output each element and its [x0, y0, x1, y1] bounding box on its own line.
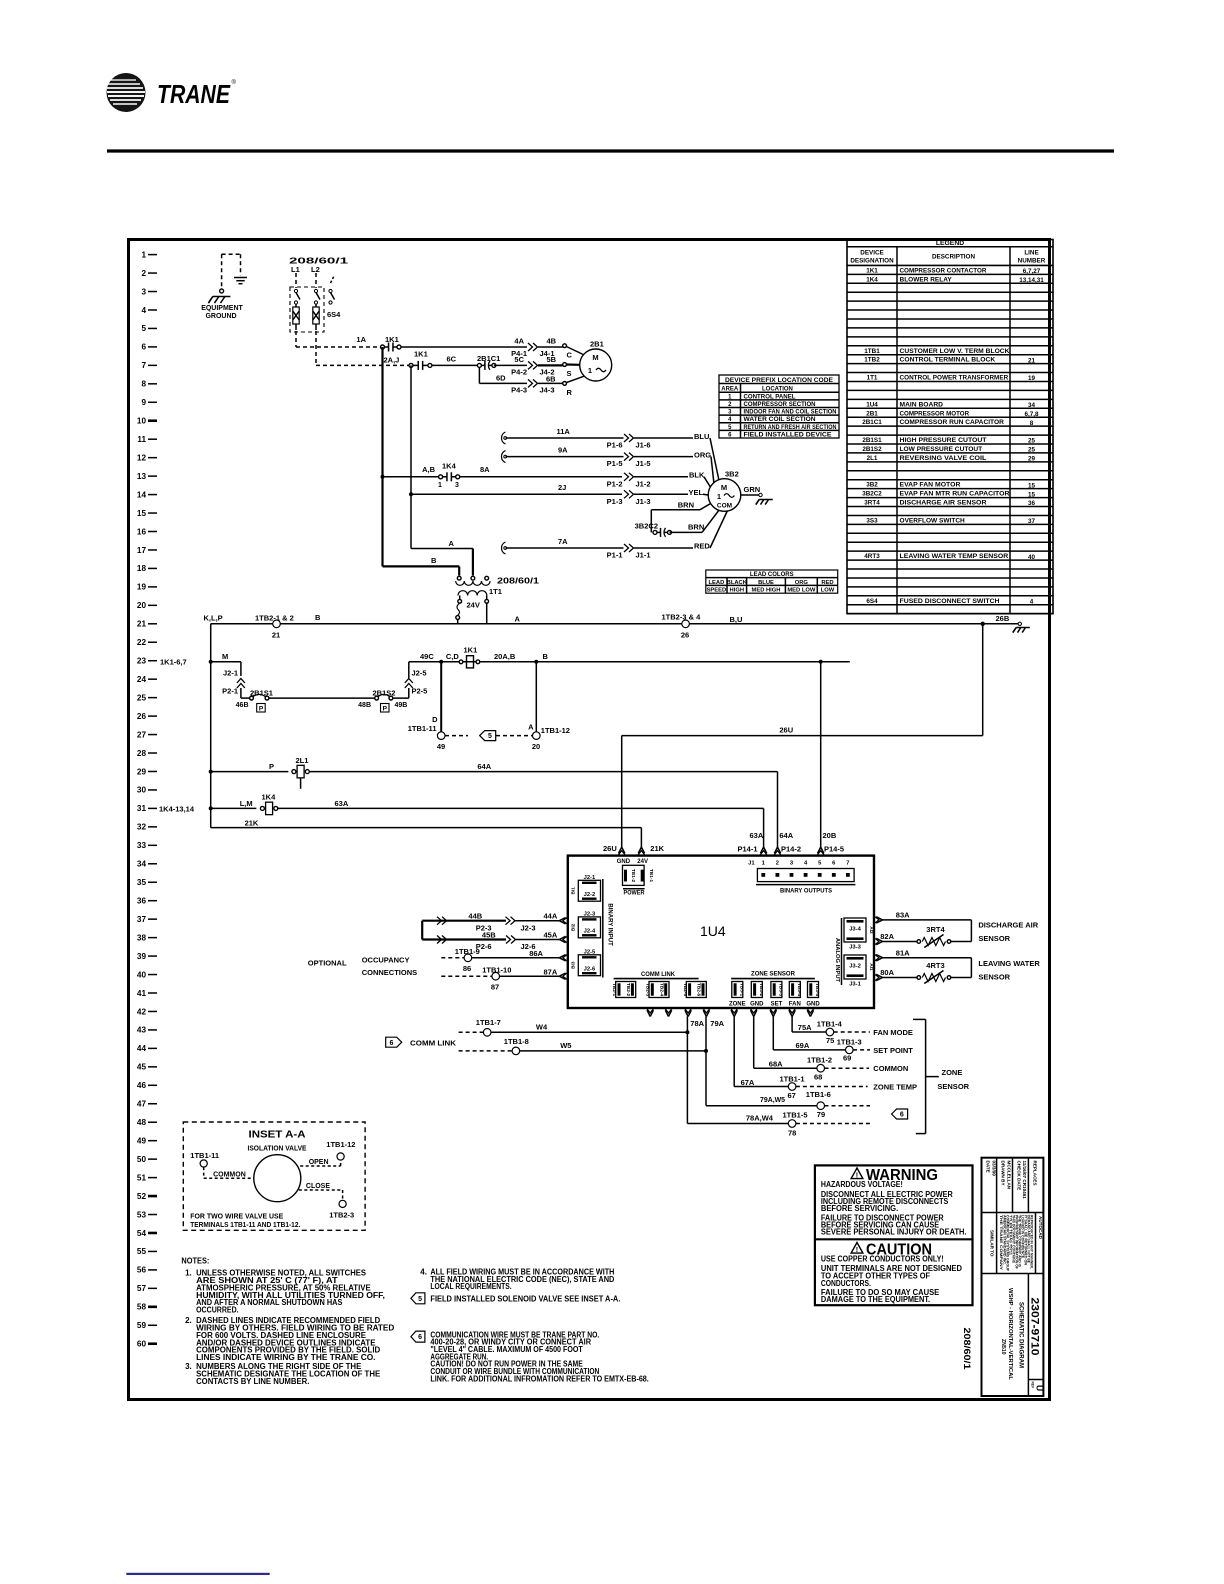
svg-text:HAZARDOUS VOLTAGE!: HAZARDOUS VOLTAGE!	[821, 1180, 903, 1189]
svg-text:2A,J: 2A,J	[384, 356, 400, 365]
svg-text:EVAP FAN MTR RUN CAPACITOR: EVAP FAN MTR RUN CAPACITOR	[900, 491, 1010, 498]
svg-text:J1-1: J1-1	[636, 551, 651, 560]
svg-text:DESIGNATION: DESIGNATION	[850, 257, 894, 264]
svg-text:ZN510: ZN510	[1000, 1339, 1006, 1355]
svg-text:BI2: BI2	[571, 923, 577, 931]
svg-text:J1-6: J1-6	[636, 441, 651, 450]
svg-text:1K1-6,7: 1K1-6,7	[160, 658, 187, 667]
svg-text:78A: 78A	[690, 1019, 704, 1028]
svg-text:M: M	[592, 353, 598, 362]
svg-text:MED HIGH: MED HIGH	[752, 588, 781, 594]
svg-text:68: 68	[814, 1073, 822, 1082]
svg-text:19: 19	[1028, 375, 1036, 382]
svg-text:TB2-5: TB2-5	[682, 983, 688, 997]
svg-text:26B: 26B	[996, 614, 1010, 623]
svg-text:J1-3: J1-3	[636, 497, 651, 506]
svg-text:59: 59	[137, 1321, 147, 1330]
svg-text:INSET A-A: INSET A-A	[249, 1130, 306, 1141]
svg-text:CONNECTIONS: CONNECTIONS	[362, 968, 417, 977]
svg-text:AUTOCAD: AUTOCAD	[1038, 1216, 1043, 1240]
svg-text:49B: 49B	[395, 702, 408, 709]
svg-text:6,7,8: 6,7,8	[1024, 411, 1039, 418]
svg-text:53: 53	[137, 1210, 147, 1219]
svg-text:LOW: LOW	[821, 588, 835, 594]
svg-text:21: 21	[272, 631, 280, 640]
svg-text:49: 49	[137, 1136, 147, 1145]
svg-text:ZONE SENSOR: ZONE SENSOR	[751, 972, 796, 978]
svg-text:2L1: 2L1	[296, 756, 309, 765]
svg-text:25: 25	[1028, 447, 1036, 454]
svg-text:3: 3	[455, 482, 459, 489]
svg-text:LOCAL REQUIREMENTS.: LOCAL REQUIREMENTS.	[430, 1282, 511, 1291]
svg-text:55: 55	[137, 1247, 147, 1256]
svg-text:J2-5: J2-5	[412, 669, 427, 678]
svg-text:BLACK: BLACK	[727, 580, 748, 586]
svg-text:CUSTOMER LOW V. TERM BLOCK: CUSTOMER LOW V. TERM BLOCK	[900, 348, 1010, 355]
svg-text:P: P	[269, 762, 274, 771]
svg-text:3RT4: 3RT4	[864, 500, 880, 507]
svg-text:OPEN: OPEN	[309, 1159, 329, 1166]
svg-text:LINE: LINE	[1024, 250, 1038, 257]
svg-text:1U4: 1U4	[866, 401, 878, 408]
svg-text:42: 42	[137, 1007, 147, 1016]
svg-text:USE COPPER CONDUCTORS ONLY!: USE COPPER CONDUCTORS ONLY!	[821, 1255, 944, 1264]
svg-text:83A: 83A	[896, 911, 910, 920]
svg-text:W4: W4	[536, 1023, 548, 1032]
svg-text:DESCRIPTION: DESCRIPTION	[932, 254, 975, 261]
svg-text:1K4: 1K4	[866, 276, 878, 283]
svg-text:79A: 79A	[710, 1019, 724, 1028]
svg-text:SET: SET	[771, 1001, 783, 1007]
svg-text:46: 46	[137, 1081, 147, 1090]
svg-text:ZONE: ZONE	[942, 1068, 963, 1077]
svg-text:29: 29	[1028, 456, 1036, 463]
svg-text:1TB1-10: 1TB1-10	[482, 966, 511, 975]
svg-text:M: M	[721, 483, 727, 492]
svg-text:3RT4: 3RT4	[926, 925, 945, 934]
svg-text:HIGH PRESSURE CUTOUT: HIGH PRESSURE CUTOUT	[900, 437, 987, 444]
svg-text:48B: 48B	[358, 702, 371, 709]
svg-text:J1-5: J1-5	[636, 459, 651, 468]
svg-text:GND: GND	[617, 859, 631, 865]
svg-text:DAMAGE TO THE EQUIPMENT.: DAMAGE TO THE EQUIPMENT.	[821, 1295, 930, 1304]
svg-text:6,7,27: 6,7,27	[1023, 268, 1041, 275]
svg-text:26U: 26U	[779, 726, 793, 735]
svg-text:J1-2: J1-2	[636, 479, 651, 488]
svg-text:REV: REV	[1031, 1382, 1035, 1389]
svg-text:SENSOR: SENSOR	[937, 1082, 969, 1091]
svg-text:1K4: 1K4	[442, 462, 457, 471]
svg-text:J2-4: J2-4	[584, 928, 596, 934]
svg-text:4RT3: 4RT3	[864, 553, 880, 560]
svg-text:J3-3: J3-3	[849, 945, 861, 951]
svg-text:MCCLELLAN: MCCLELLAN	[1006, 1161, 1011, 1190]
svg-text:1TB1-11: 1TB1-11	[190, 1151, 219, 1160]
svg-text:3B2C2: 3B2C2	[635, 522, 658, 531]
svg-text:82A: 82A	[880, 932, 894, 941]
svg-text:20A,B: 20A,B	[494, 652, 516, 661]
svg-text:BLU: BLU	[694, 432, 709, 441]
svg-text:J3-1: J3-1	[849, 982, 861, 988]
svg-text:SCHEMATIC DIAGRAM: SCHEMATIC DIAGRAM	[1018, 1302, 1025, 1368]
svg-text:®: ®	[232, 79, 237, 86]
svg-text:ZONE: ZONE	[729, 1001, 746, 1007]
svg-text:36: 36	[1028, 500, 1036, 507]
svg-text:LEAD: LEAD	[709, 580, 725, 586]
svg-text:1TB1-11: 1TB1-11	[408, 724, 437, 733]
svg-text:1U4: 1U4	[700, 923, 726, 939]
svg-text:5: 5	[141, 324, 146, 333]
svg-text:LOW PRESSURE CUTOUT: LOW PRESSURE CUTOUT	[900, 446, 983, 453]
svg-text:TB1-1: TB1-1	[648, 869, 654, 883]
svg-text:EQUIPMENT: EQUIPMENT	[201, 305, 243, 312]
svg-text:TB2-6: TB2-6	[696, 983, 702, 997]
svg-text:03/3/99: 03/3/99	[991, 1161, 996, 1177]
svg-text:4.: 4.	[420, 1267, 427, 1276]
svg-text:ANALOG INPUT: ANALOG INPUT	[834, 938, 840, 983]
svg-text:33: 33	[137, 841, 147, 850]
svg-text:EVAP FAN MOTOR: EVAP FAN MOTOR	[900, 482, 961, 489]
svg-text:49: 49	[437, 742, 445, 751]
svg-text:87A: 87A	[544, 967, 558, 976]
svg-text:11/16/07 CR10461: 11/16/07 CR10461	[1022, 1161, 1027, 1200]
svg-text:24V: 24V	[467, 601, 480, 610]
svg-text:TB3-5: TB3-5	[814, 983, 820, 997]
svg-text:RED: RED	[821, 580, 833, 586]
svg-text:DRAWN BY: DRAWN BY	[1001, 1161, 1006, 1186]
svg-text:5: 5	[488, 733, 492, 740]
svg-text:48: 48	[137, 1118, 147, 1127]
svg-text:DEVICE: DEVICE	[860, 250, 883, 257]
svg-text:1: 1	[588, 366, 592, 375]
svg-text:2B1: 2B1	[866, 410, 878, 417]
svg-text:P4-2: P4-2	[511, 368, 527, 377]
svg-text:M: M	[222, 652, 228, 661]
svg-text:COMM LINK: COMM LINK	[410, 1039, 457, 1048]
svg-text:COMMON: COMMON	[873, 1064, 908, 1073]
svg-text:REPLACES: REPLACES	[1032, 1161, 1037, 1186]
svg-text:OCCURRED.: OCCURRED.	[196, 1305, 239, 1314]
svg-text:2J: 2J	[558, 483, 566, 492]
svg-text:26U: 26U	[603, 844, 617, 853]
svg-text:79: 79	[817, 1110, 825, 1119]
svg-text:12: 12	[137, 453, 147, 462]
svg-text:ISOLATION VALVE: ISOLATION VALVE	[248, 1146, 307, 1153]
svg-text:78A,W4: 78A,W4	[746, 1114, 774, 1123]
svg-text:18: 18	[137, 564, 147, 573]
svg-text:6B: 6B	[546, 375, 556, 384]
svg-text:FAN: FAN	[789, 1001, 801, 1007]
svg-text:52: 52	[137, 1192, 147, 1201]
svg-text:1K4-13,14: 1K4-13,14	[159, 805, 195, 814]
svg-text:P14-2: P14-2	[781, 845, 801, 854]
svg-text:GND: GND	[750, 1001, 764, 1007]
svg-text:A: A	[515, 615, 521, 624]
svg-text:BLK: BLK	[689, 470, 705, 479]
svg-text:75: 75	[826, 1036, 834, 1045]
svg-text:S: S	[567, 369, 572, 378]
svg-text:1TB1-3: 1TB1-3	[837, 1038, 862, 1047]
svg-text:D: D	[432, 715, 438, 724]
svg-text:TB3-4: TB3-4	[796, 983, 802, 997]
svg-text:6: 6	[900, 1112, 904, 1119]
svg-text:47: 47	[137, 1100, 147, 1109]
svg-text:26: 26	[137, 712, 147, 721]
svg-text:23: 23	[137, 657, 147, 666]
svg-text:BINARY OUTPUTS: BINARY OUTPUTS	[780, 889, 832, 895]
svg-text:DATE: DATE	[986, 1161, 991, 1173]
svg-text:26: 26	[681, 631, 689, 640]
svg-text:1TB1-6: 1TB1-6	[806, 1090, 831, 1099]
svg-text:CONTROL TERMINAL BLOCK: CONTROL TERMINAL BLOCK	[900, 357, 996, 364]
svg-text:2.: 2.	[185, 1316, 192, 1325]
svg-text:BEFORE SERVICING.: BEFORE SERVICING.	[821, 1204, 898, 1213]
svg-text:P1-6: P1-6	[607, 441, 623, 450]
svg-text:CONTACTS BY LINE NUMBER.: CONTACTS BY LINE NUMBER.	[196, 1377, 309, 1386]
svg-text:L2: L2	[311, 265, 320, 274]
svg-text:AREA: AREA	[721, 387, 739, 393]
svg-text:24V: 24V	[637, 859, 648, 865]
svg-text:2: 2	[776, 861, 779, 867]
svg-text:FAN MODE: FAN MODE	[873, 1028, 913, 1037]
svg-text:45B: 45B	[482, 930, 496, 939]
svg-text:A,B: A,B	[422, 465, 436, 474]
svg-text:COMMON: COMMON	[213, 1171, 246, 1178]
svg-text:69A: 69A	[796, 1041, 810, 1050]
svg-text:LOCATION: LOCATION	[762, 387, 793, 393]
svg-text:CONDUCTORS.: CONDUCTORS.	[821, 1279, 871, 1288]
svg-text:21: 21	[137, 620, 147, 629]
svg-text:4: 4	[1030, 598, 1034, 605]
svg-text:SEVERE PERSONAL INJURY OR DEAT: SEVERE PERSONAL INJURY OR DEATH.	[821, 1228, 967, 1237]
svg-text:1TB1-5: 1TB1-5	[783, 1111, 808, 1120]
svg-text:69: 69	[843, 1054, 851, 1063]
svg-text:CONTROL POWER TRANSFORMER: CONTROL POWER TRANSFORMER	[900, 375, 1009, 382]
svg-text:44B: 44B	[468, 912, 482, 921]
svg-text:L1: L1	[291, 265, 300, 274]
svg-text:25: 25	[1028, 438, 1036, 445]
svg-text:10: 10	[137, 417, 147, 426]
svg-text:OCCUPANCY: OCCUPANCY	[362, 956, 410, 965]
svg-text:20: 20	[137, 601, 147, 610]
svg-text:54: 54	[137, 1229, 147, 1238]
svg-text:HIGH: HIGH	[730, 588, 745, 594]
svg-text:63A: 63A	[750, 831, 764, 840]
svg-text:P: P	[383, 706, 388, 713]
svg-text:25: 25	[137, 693, 147, 702]
svg-text:44A: 44A	[544, 912, 558, 921]
svg-text:BRN: BRN	[678, 501, 694, 510]
svg-text:13: 13	[137, 472, 147, 481]
svg-text:ORG: ORG	[795, 580, 809, 586]
svg-text:A: A	[528, 723, 534, 732]
svg-text:39: 39	[137, 952, 147, 961]
svg-text:J3-4: J3-4	[849, 927, 861, 933]
svg-text:P1-1: P1-1	[607, 551, 623, 560]
svg-text:1TB1-4: 1TB1-4	[817, 1020, 843, 1029]
svg-text:8: 8	[1030, 420, 1034, 427]
svg-text:GND: GND	[806, 1001, 820, 1007]
svg-text:P2-1: P2-1	[222, 687, 238, 696]
svg-text:2B1S1: 2B1S1	[862, 437, 882, 444]
svg-text:LEGEND: LEGEND	[936, 240, 964, 247]
svg-text:J2-6: J2-6	[584, 966, 596, 972]
svg-text:37: 37	[1028, 518, 1036, 525]
svg-text:44: 44	[137, 1044, 147, 1053]
svg-text:1K1: 1K1	[385, 335, 399, 344]
svg-text:BRN: BRN	[688, 523, 704, 532]
svg-text:J2-3: J2-3	[521, 924, 536, 933]
svg-text:BI1: BI1	[571, 887, 577, 895]
svg-text:4RT3: 4RT3	[926, 961, 944, 970]
svg-text:DISCHARGE AIR: DISCHARGE AIR	[978, 921, 1038, 930]
svg-text:80A: 80A	[880, 968, 894, 977]
svg-text:SET POINT: SET POINT	[873, 1046, 913, 1055]
svg-text:6: 6	[390, 1040, 394, 1047]
svg-text:BLUE: BLUE	[758, 580, 774, 586]
svg-text:6: 6	[141, 343, 146, 352]
svg-text:2B1S2: 2B1S2	[862, 446, 882, 453]
svg-text:24: 24	[137, 675, 147, 684]
svg-text:31: 31	[137, 804, 147, 813]
svg-text:2B1C1: 2B1C1	[477, 354, 500, 363]
svg-text:SIMILAR TO: SIMILAR TO	[990, 1230, 995, 1257]
svg-text:C,D: C,D	[446, 652, 460, 661]
svg-text:CHECK DATE: CHECK DATE	[1016, 1161, 1021, 1191]
svg-text:17: 17	[137, 546, 147, 555]
svg-text:5C: 5C	[514, 355, 524, 364]
svg-text:3S3: 3S3	[866, 517, 878, 524]
svg-text:L,M: L,M	[240, 799, 253, 808]
svg-text:1TB2-3: 1TB2-3	[329, 1211, 354, 1220]
svg-text:28: 28	[137, 749, 147, 758]
svg-text:32: 32	[137, 823, 147, 832]
svg-text:2L1: 2L1	[867, 455, 878, 462]
svg-text:20B: 20B	[823, 831, 837, 840]
svg-text:NUMBER: NUMBER	[1018, 257, 1046, 264]
svg-text:A: A	[449, 539, 455, 548]
svg-text:40: 40	[137, 970, 147, 979]
svg-text:22: 22	[137, 638, 147, 647]
svg-text:6C: 6C	[447, 355, 457, 364]
svg-text:35: 35	[137, 878, 147, 887]
svg-text:LINES INDICATE WIRING BY THE T: LINES INDICATE WIRING BY THE TRANE CO.	[196, 1353, 375, 1362]
svg-text:P1-2: P1-2	[607, 479, 623, 488]
svg-text:3: 3	[141, 287, 146, 296]
svg-text:WSHP - HORIZONTAL-VERTICAL: WSHP - HORIZONTAL-VERTICAL	[1007, 1288, 1013, 1381]
svg-text:COMPRESSOR RUN CAPACITOR: COMPRESSOR RUN CAPACITOR	[900, 419, 1005, 426]
svg-text:W5: W5	[560, 1041, 571, 1050]
svg-text:COMM LINK: COMM LINK	[641, 972, 676, 978]
svg-text:J4-3: J4-3	[540, 386, 555, 395]
svg-text:1K4: 1K4	[262, 793, 277, 802]
svg-text:1K1: 1K1	[866, 267, 878, 274]
svg-text:TB2-4: TB2-4	[658, 983, 664, 997]
svg-text:B: B	[543, 652, 549, 661]
svg-text:FIELD INSTALLED SOLENOID VALVE: FIELD INSTALLED SOLENOID VALVE SEE INSET…	[430, 1294, 620, 1303]
svg-text:68A: 68A	[769, 1060, 783, 1069]
svg-text:34: 34	[1028, 402, 1036, 409]
svg-text:1T1: 1T1	[867, 375, 878, 382]
svg-text:7: 7	[846, 861, 849, 867]
svg-text:208/60/1: 208/60/1	[497, 577, 540, 586]
svg-text:49C: 49C	[420, 652, 434, 661]
svg-text:3B2C2: 3B2C2	[862, 491, 882, 498]
svg-text:6S4: 6S4	[866, 598, 878, 605]
svg-text:COM: COM	[717, 503, 732, 510]
svg-text:87: 87	[491, 983, 499, 992]
svg-text:86A: 86A	[529, 949, 543, 958]
svg-text:4: 4	[141, 306, 146, 315]
svg-text:19: 19	[137, 583, 147, 592]
svg-text:1TB1-9: 1TB1-9	[455, 947, 480, 956]
svg-text:DEVICE PREFIX LOCATION CODE: DEVICE PREFIX LOCATION CODE	[725, 377, 833, 384]
svg-text:36: 36	[137, 897, 147, 906]
svg-text:REVERSING VALVE COIL: REVERSING VALVE COIL	[900, 455, 987, 462]
svg-text:REPRODUCED IN ANY MANNER.: REPRODUCED IN ANY MANNER.	[1030, 1215, 1034, 1269]
svg-text:TB3-1: TB3-1	[738, 983, 744, 997]
svg-text:56: 56	[137, 1266, 147, 1275]
svg-text:GRN: GRN	[744, 485, 761, 494]
svg-text:P2-5: P2-5	[412, 687, 428, 696]
svg-text:51: 51	[137, 1173, 147, 1182]
svg-text:1.: 1.	[185, 1269, 192, 1278]
svg-text:U: U	[1035, 1385, 1045, 1391]
svg-text:FUSED DISCONNECT SWITCH: FUSED DISCONNECT SWITCH	[900, 598, 1001, 605]
svg-text:7A: 7A	[558, 537, 568, 546]
svg-text:8A: 8A	[480, 465, 490, 474]
svg-text:TB2-2: TB2-2	[625, 983, 631, 997]
svg-text:11: 11	[137, 435, 146, 444]
svg-text:LEAVING WATER TEMP SENSOR: LEAVING WATER TEMP SENSOR	[900, 553, 1009, 560]
svg-text:1K1: 1K1	[414, 350, 428, 359]
svg-text:15: 15	[1028, 482, 1036, 489]
svg-text:ZONE TEMP: ZONE TEMP	[873, 1083, 917, 1092]
svg-text:MED LOW: MED LOW	[787, 588, 816, 594]
svg-text:5B: 5B	[547, 355, 557, 364]
svg-text:41: 41	[137, 989, 147, 998]
svg-text:64A: 64A	[779, 831, 793, 840]
svg-text:78: 78	[788, 1129, 796, 1138]
svg-text:86: 86	[463, 964, 471, 973]
svg-text:ORG: ORG	[694, 451, 711, 460]
svg-text:GROUND: GROUND	[205, 313, 236, 320]
svg-text:34: 34	[137, 860, 147, 869]
svg-text:TB2-1: TB2-1	[611, 983, 617, 997]
svg-text:P1-5: P1-5	[607, 459, 623, 468]
svg-text:21: 21	[1028, 357, 1036, 364]
svg-text:29: 29	[137, 767, 147, 776]
svg-text:7: 7	[141, 361, 146, 370]
svg-text:TRANE: TRANE	[157, 79, 231, 109]
svg-text:B: B	[431, 556, 437, 565]
svg-text:BLOWER RELAY: BLOWER RELAY	[900, 276, 953, 283]
svg-text:6D: 6D	[496, 374, 506, 383]
svg-text:11A: 11A	[557, 427, 571, 436]
svg-text:K,L,P: K,L,P	[204, 614, 223, 623]
svg-text:TB3-2: TB3-2	[758, 983, 764, 997]
svg-text:16: 16	[137, 527, 147, 536]
svg-text:75A: 75A	[798, 1023, 812, 1032]
svg-text:208/60/1: 208/60/1	[961, 1328, 972, 1371]
svg-text:2: 2	[141, 269, 146, 278]
svg-text:AI2: AI2	[868, 926, 874, 934]
svg-text:50: 50	[137, 1155, 147, 1164]
svg-text:YEL: YEL	[689, 488, 704, 497]
svg-text:LEAVING WATER: LEAVING WATER	[978, 959, 1040, 968]
svg-text:COMPRESSOR CONTACTOR: COMPRESSOR CONTACTOR	[900, 267, 987, 274]
svg-text:21K: 21K	[245, 819, 259, 828]
